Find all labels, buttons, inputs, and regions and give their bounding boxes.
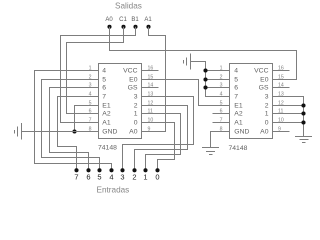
svg-text:A1: A1 bbox=[234, 120, 243, 127]
svg-text:1: 1 bbox=[134, 111, 138, 118]
svg-text:4: 4 bbox=[102, 68, 106, 75]
wire U1 pin15 E0 to U2 pin5 E1 bbox=[142, 80, 230, 106]
node A1 (output terminal) bbox=[144, 17, 152, 29]
svg-text:A2: A2 bbox=[102, 111, 111, 118]
ground G2 (left of U2) bbox=[184, 54, 191, 70]
svg-text:A0: A0 bbox=[260, 129, 269, 136]
svg-text:A0: A0 bbox=[105, 17, 113, 23]
wire U2 pin16 VCC stub bbox=[273, 70, 290, 72]
wire U2 pin9 A0 stub bbox=[273, 131, 290, 133]
node input terminal 4 bbox=[109, 168, 113, 181]
wire A0 terminal to U2 pin15 E0 bbox=[110, 27, 297, 80]
node junction U2 pin11 bbox=[301, 111, 305, 115]
wire U1 pin8 GND to ground bbox=[22, 131, 99, 133]
node input terminal 3 bbox=[120, 168, 124, 181]
node input terminal 1 bbox=[143, 168, 147, 181]
wire ground bus to U2 pins 1-4 bbox=[191, 62, 230, 97]
wire U2 pin1 stub bbox=[206, 70, 230, 72]
ground G4 (right of U2) bbox=[295, 137, 312, 143]
svg-text:A0: A0 bbox=[129, 129, 138, 136]
wire U2 pin8 GND to ground bbox=[211, 132, 230, 148]
svg-text:4: 4 bbox=[234, 68, 238, 75]
wire U2 pin11 stub bbox=[273, 113, 304, 115]
svg-text:5: 5 bbox=[97, 173, 101, 182]
node input terminal 0 bbox=[155, 168, 159, 181]
svg-text:A2: A2 bbox=[234, 111, 243, 118]
node C1 (output terminal) bbox=[119, 17, 127, 29]
wire U1 pin14 GS stub bbox=[142, 87, 159, 89]
wire U2 pin14 GS stub bbox=[273, 87, 290, 89]
op-amp U1 74148 encoder body bbox=[89, 64, 154, 139]
node junction U2 pin3 bbox=[203, 85, 207, 89]
wire U1 pin11 input1 to terminal 1 bbox=[142, 114, 181, 171]
svg-text:Salidas: Salidas bbox=[115, 2, 142, 11]
svg-text:6: 6 bbox=[86, 173, 90, 182]
svg-text:6: 6 bbox=[89, 109, 92, 115]
node junction U2 pin2 bbox=[203, 77, 207, 81]
svg-text:7: 7 bbox=[89, 118, 92, 124]
wire U1 pin1 input4 to terminal 4 bbox=[35, 71, 112, 171]
svg-text:5: 5 bbox=[102, 77, 106, 84]
wire U2 pin10 stub bbox=[273, 122, 304, 124]
svg-text:15: 15 bbox=[278, 75, 284, 81]
svg-text:A1: A1 bbox=[144, 17, 152, 23]
node B1 (output terminal) bbox=[131, 17, 139, 29]
wire U1 pin2 input5 to terminal 5 bbox=[42, 80, 100, 171]
svg-text:E1: E1 bbox=[234, 103, 243, 110]
svg-text:E0: E0 bbox=[260, 77, 269, 84]
svg-text:VCC: VCC bbox=[254, 68, 268, 75]
node ground junction on U1 GND wire bbox=[72, 129, 76, 133]
op-amp U2 74148 encoder body bbox=[220, 64, 284, 139]
svg-text:4: 4 bbox=[109, 173, 113, 182]
wire U1 pin13 input3 to terminal 3 bbox=[123, 97, 194, 171]
svg-text:GS: GS bbox=[259, 85, 269, 92]
node input terminal 6 bbox=[86, 168, 90, 181]
wire U2 pin7 A1 stub bbox=[213, 122, 230, 124]
node input terminal 7 bbox=[74, 168, 78, 181]
svg-text:7: 7 bbox=[234, 94, 238, 101]
node input terminal 5 bbox=[97, 168, 101, 181]
wire U1 pin10 input0 to terminal 0 bbox=[142, 123, 175, 171]
svg-text:GND: GND bbox=[234, 129, 249, 136]
svg-text:2: 2 bbox=[132, 173, 136, 182]
wire A1 terminal to U1 pin9 A0 bbox=[142, 27, 166, 132]
svg-text:7: 7 bbox=[102, 94, 106, 101]
svg-text:C1: C1 bbox=[119, 17, 127, 23]
svg-text:3: 3 bbox=[120, 173, 124, 182]
svg-text:74148: 74148 bbox=[98, 145, 117, 152]
wire U1 pin4 input7 to terminal 7 bbox=[58, 97, 99, 171]
node input terminal 2 bbox=[132, 168, 136, 181]
wire U2 pin6 A2 stub bbox=[213, 113, 230, 115]
svg-text:0: 0 bbox=[265, 120, 269, 127]
wire B1 terminal to U1 pin7 A1 bbox=[61, 27, 136, 123]
svg-text:GS: GS bbox=[128, 85, 138, 92]
svg-text:GND: GND bbox=[102, 129, 117, 136]
svg-text:0: 0 bbox=[134, 120, 138, 127]
wire U2 pin2 stub bbox=[206, 79, 230, 81]
ground G3 (below U2) bbox=[202, 148, 219, 155]
svg-text:1: 1 bbox=[143, 173, 147, 182]
wire U1 pin12 input2 to terminal 2 bbox=[135, 106, 188, 171]
wire U1 pin16 VCC stub bbox=[142, 70, 159, 72]
svg-text:A1: A1 bbox=[102, 120, 111, 127]
svg-text:E1: E1 bbox=[102, 103, 111, 110]
svg-text:B1: B1 bbox=[131, 17, 139, 23]
svg-text:0: 0 bbox=[155, 173, 159, 182]
svg-text:7: 7 bbox=[74, 173, 78, 182]
svg-text:VCC: VCC bbox=[123, 68, 137, 75]
svg-text:E0: E0 bbox=[129, 77, 138, 84]
node A0 (output terminal) bbox=[105, 17, 113, 29]
node junction U2 pin1 bbox=[203, 68, 207, 72]
svg-text:5: 5 bbox=[234, 77, 238, 84]
svg-text:2: 2 bbox=[134, 103, 138, 110]
svg-text:Entradas: Entradas bbox=[97, 186, 130, 195]
svg-text:1: 1 bbox=[265, 111, 269, 118]
wire U2 pin3 stub bbox=[206, 87, 230, 89]
svg-text:6: 6 bbox=[234, 85, 238, 92]
wire U2 pins 13-10 inputs to ground bbox=[273, 97, 304, 137]
wire U1 pin3 input6 to terminal 6 bbox=[50, 88, 99, 171]
wire C1 terminal to U1 pin6 A2 bbox=[67, 27, 124, 114]
svg-text:6: 6 bbox=[102, 85, 106, 92]
svg-text:3: 3 bbox=[265, 94, 269, 101]
svg-text:3: 3 bbox=[134, 94, 138, 101]
wire U1 pin5 E1 to ground net bbox=[75, 106, 99, 132]
svg-text:9: 9 bbox=[148, 127, 151, 133]
node junction U2 pin12 bbox=[301, 103, 305, 107]
ground G1 (left of U1) bbox=[15, 123, 22, 140]
wire U2 pin12 stub bbox=[273, 105, 304, 107]
node junction U2 pin10 bbox=[301, 120, 305, 124]
svg-text:74148: 74148 bbox=[229, 145, 248, 152]
svg-text:2: 2 bbox=[265, 103, 269, 110]
